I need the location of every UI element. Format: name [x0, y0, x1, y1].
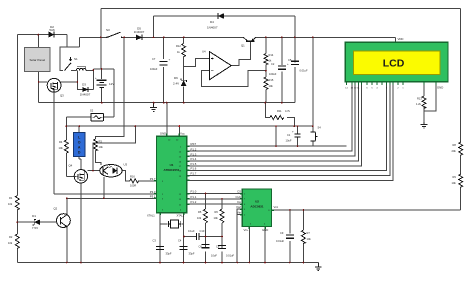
svg-text:12V: 12V — [109, 82, 114, 86]
wire C2 branch — [281, 37, 283, 102]
svg-text:P1.4: P1.4 — [191, 157, 197, 161]
wire D4 bypass rail y16 — [154, 16, 295, 37]
capacitor C1 10uF — [286, 130, 301, 143]
wire battery box right side to fuse — [113, 69, 115, 117]
wire ADC vcc to divider — [272, 209, 461, 211]
svg-text:C2: C2 — [271, 62, 275, 66]
wire 5V rail after Q1 — [256, 36, 396, 38]
wire bottom bus — [17, 262, 318, 264]
wire left column vertical — [16, 35, 18, 263]
svg-text:0.01uF: 0.01uF — [276, 239, 284, 243]
svg-text:S1: S1 — [74, 57, 78, 61]
svg-text:R14: R14 — [269, 53, 274, 57]
wire solar top rail — [17, 34, 67, 36]
wire C9 branch — [289, 210, 291, 263]
zener diode D1 7.5V — [32, 214, 40, 230]
svg-text:+: + — [287, 62, 289, 66]
wire battery enclosure top — [93, 68, 114, 70]
wire battery plus riser — [101, 69, 103, 79]
wire Q2 emitter down — [66, 227, 68, 263]
inductor L1 — [76, 66, 86, 70]
svg-text:Solar Panel: Solar Panel — [30, 58, 46, 62]
mosfet Q3 — [47, 78, 64, 97]
wire S1 to L1 row — [71, 70, 76, 72]
svg-text:1k: 1k — [269, 59, 272, 63]
wire opto output to R16 — [122, 171, 130, 181]
lcd pin numbers — [345, 87, 404, 89]
wire R11 from gnd rail — [265, 103, 294, 127]
capacitor C10 0.1uF — [188, 229, 205, 240]
svg-text:D3: D3 — [82, 83, 86, 87]
resistor R5 — [197, 209, 208, 223]
wire opamp output to Q1 base — [231, 42, 250, 65]
diode D5 1N4007 — [134, 27, 145, 41]
wire bus nest extra — [189, 85, 393, 180]
svg-text:Q1: Q1 — [241, 44, 245, 48]
svg-text:AT89C2051: AT89C2051 — [164, 168, 180, 172]
battery BAT1 12V — [95, 76, 114, 88]
svg-text:2: 2 — [397, 87, 399, 89]
wire D1 to Q2 base — [40, 221, 57, 223]
wire Q3 source to node — [61, 81, 77, 83]
wire ADC vref staircase — [237, 209, 242, 262]
wire P3.0 row — [54, 193, 156, 195]
svg-text:20k: 20k — [452, 149, 457, 153]
svg-text:P1.3: P1.3 — [191, 152, 197, 156]
svg-text:P1.7: P1.7 — [191, 172, 197, 176]
wire C1 stubs — [297, 126, 299, 146]
svg-text:R4: R4 — [59, 140, 63, 144]
switch S1 — [65, 57, 79, 71]
svg-text:R13: R13 — [417, 97, 422, 101]
svg-text:C3: C3 — [153, 239, 157, 243]
resistor R2 — [8, 234, 19, 248]
mcu right pin labels — [191, 142, 197, 204]
wire bus nest P1.7 — [189, 85, 389, 176]
svg-text:Q2: Q2 — [54, 207, 58, 211]
wire vcc bus y126.1 — [66, 125, 313, 127]
wire right end of top rail down to divider — [460, 9, 462, 143]
lcd module — [345, 37, 448, 90]
resistor R8 — [452, 142, 463, 155]
svg-text:7.5V: 7.5V — [32, 226, 38, 230]
resistor R16 — [130, 175, 139, 188]
wire bus nest P1.6 — [189, 85, 386, 170]
svg-text:ADC0831: ADC0831 — [250, 205, 264, 209]
capacitor C9 0.01uF — [276, 231, 294, 243]
svg-text:D1: D1 — [32, 214, 36, 218]
adc pin stubs — [240, 194, 274, 229]
wire divider chain right — [460, 155, 462, 210]
wire opamp minus feedback — [201, 71, 266, 87]
svg-text:+: + — [292, 130, 294, 134]
svg-text:10k: 10k — [307, 237, 312, 241]
wire reset button drop — [312, 37, 314, 146]
wire MCU GND stub — [166, 103, 168, 137]
wire vcc bus drop to opto input — [93, 126, 135, 171]
svg-text:R3: R3 — [99, 140, 103, 144]
svg-text:A: A — [78, 146, 81, 150]
optocoupler U3 — [100, 163, 128, 177]
capacitor C6 10uF — [199, 245, 218, 258]
transistor Q2 — [54, 207, 71, 228]
svg-text:R12: R12 — [176, 44, 181, 48]
wire L1 left tap to switch node — [76, 71, 78, 83]
resistor R1 — [8, 196, 19, 210]
wire XTAL2 drop — [183, 213, 185, 263]
svg-text:11: 11 — [357, 87, 360, 89]
wire C7 branch — [163, 37, 165, 102]
svg-text:1N4007: 1N4007 — [134, 30, 145, 34]
svg-text:Q4: Q4 — [69, 164, 73, 168]
diode D3 1N4007 — [80, 83, 91, 97]
wire R1 R2 junction to D1 — [17, 221, 34, 223]
resistor R13 — [416, 96, 426, 108]
wire L1 to battery top — [86, 69, 93, 71]
svg-text:0.01uF: 0.01uF — [226, 254, 234, 258]
svg-text:14: 14 — [345, 87, 348, 89]
wire gnd rail y102.6 — [39, 102, 295, 104]
svg-text:6: 6 — [366, 87, 368, 89]
wire C3 stubs — [159, 246, 161, 263]
svg-text:U2: U2 — [255, 200, 259, 204]
svg-text:C9: C9 — [280, 231, 284, 235]
wire MCU Vcc stub — [178, 126, 180, 136]
wire C4 stubs — [183, 246, 185, 263]
svg-text:P1.6: P1.6 — [191, 166, 197, 170]
svg-text:XTAL1: XTAL1 — [147, 214, 155, 218]
wire R4 chain — [66, 126, 75, 176]
wire P3.1 row — [67, 197, 157, 199]
wire opto emitter down — [103, 177, 105, 199]
svg-text:R9: R9 — [453, 175, 457, 179]
wire XTAL1 drop — [159, 213, 161, 263]
svg-text:33pF: 33pF — [189, 252, 195, 256]
wire crystal leads — [160, 223, 184, 225]
mcu left pin labels — [150, 177, 156, 199]
svg-text:3: 3 — [386, 87, 388, 89]
diode D2 — [49, 25, 55, 38]
wire panel bottom to gnd rail — [38, 71, 40, 102]
adc pin numbers — [244, 193, 270, 225]
wire VDD drop to LCD — [395, 37, 397, 42]
svg-text:Vcc: Vcc — [180, 132, 185, 136]
svg-text:2.4V: 2.4V — [173, 82, 179, 86]
svg-text:100uF: 100uF — [150, 67, 158, 71]
wire fuse left to vcc bus — [66, 117, 90, 126]
svg-text:U4: U4 — [202, 50, 206, 54]
load block — [73, 133, 85, 157]
wire bus nest P1.4 — [189, 85, 358, 161]
svg-text:S4: S4 — [318, 126, 322, 130]
svg-text:RST: RST — [191, 142, 197, 146]
capacitor C2 100uF — [269, 62, 289, 76]
resistor R14 — [264, 53, 274, 65]
svg-text:R2: R2 — [9, 235, 13, 239]
mcu pin stubs — [154, 134, 189, 216]
svg-text:P1.2: P1.2 — [191, 147, 197, 151]
svg-text:1N4007: 1N4007 — [80, 93, 91, 97]
resistor R9 — [452, 174, 463, 187]
svg-text:O: O — [78, 141, 81, 145]
svg-text:100R: 100R — [130, 184, 136, 188]
ground symbol mid — [150, 103, 157, 112]
wire R14 R15 divider chain — [265, 37, 267, 102]
wire R3 bottom to opto anode — [96, 151, 101, 165]
svg-text:R7: R7 — [307, 231, 311, 235]
svg-text:10k: 10k — [269, 84, 274, 88]
resistor R11 — [270, 109, 291, 120]
svg-text:Q3: Q3 — [60, 94, 64, 98]
wire left end of top rail down to battery — [100, 9, 102, 70]
svg-text:33pF: 33pF — [166, 252, 172, 256]
wire R6 chain — [221, 199, 223, 263]
wire bus nest P1.5 — [189, 85, 361, 166]
op-amp U4 — [202, 50, 231, 80]
mcu U1 AT89C2051 — [147, 132, 187, 218]
svg-text:P1.1: P1.1 — [191, 195, 197, 199]
wire top rail VDD feed — [101, 8, 461, 10]
svg-text:10k: 10k — [99, 145, 104, 149]
svg-text:Vcc: Vcc — [274, 205, 279, 209]
svg-text:U3: U3 — [124, 163, 128, 167]
svg-text:10k: 10k — [214, 216, 219, 220]
wire reset left riser — [275, 126, 277, 146]
svg-text:R6: R6 — [215, 210, 219, 214]
svg-text:R11: R11 — [277, 109, 282, 113]
svg-text:4: 4 — [376, 87, 378, 89]
resistor R3 — [94, 139, 104, 151]
svg-text:10k: 10k — [59, 146, 64, 150]
resistor R4 — [59, 140, 69, 153]
resistor R6 — [214, 209, 225, 223]
svg-text:R16: R16 — [130, 175, 135, 179]
svg-text:D4: D4 — [210, 20, 214, 24]
zener diode D6 2.4V — [173, 76, 186, 86]
resistor R15 — [264, 77, 274, 89]
wire C10 row — [184, 236, 222, 238]
svg-text:10k: 10k — [452, 181, 457, 185]
svg-text:C6: C6 — [199, 245, 203, 249]
svg-text:+: + — [95, 76, 97, 80]
svg-text:+: + — [169, 58, 171, 62]
svg-text:0.01uF: 0.01uF — [300, 69, 308, 73]
wire opto input row — [88, 170, 100, 172]
wire LOAD stubs — [79, 126, 81, 170]
svg-text:R5: R5 — [198, 210, 202, 214]
wire Q3 gate down — [53, 92, 55, 194]
wire D3 to battery plus side — [89, 71, 94, 90]
svg-text:C1: C1 — [287, 133, 291, 137]
svg-text:R8: R8 — [453, 143, 457, 147]
mosfet Q4 — [69, 164, 88, 184]
wire D2 to S1 staircase — [60, 35, 67, 71]
wire battery minus to gnd rail — [101, 88, 103, 103]
svg-text:1: 1 — [402, 87, 404, 89]
capacitor C7 100uF — [150, 57, 171, 71]
wire P1.0 row to ADC CS — [189, 193, 242, 195]
wire panel minus to Q3 drain — [39, 81, 48, 83]
wire RST row — [189, 145, 346, 147]
svg-text:S2: S2 — [90, 109, 94, 113]
diode D4 1N4007 — [207, 13, 224, 29]
svg-text:C8: C8 — [216, 245, 220, 249]
wire node down to D3 — [77, 82, 82, 90]
capacitor C8 0.01uF — [216, 245, 234, 258]
wire LCD R13 branch — [424, 85, 436, 122]
svg-text:GND: GND — [160, 132, 166, 136]
wire R12 D6 branch — [183, 37, 185, 102]
svg-text:1.2k: 1.2k — [416, 102, 422, 106]
svg-text:4.7k: 4.7k — [285, 109, 291, 113]
svg-text:S3: S3 — [106, 28, 110, 32]
resistor R12 — [176, 44, 186, 57]
mcu pin numbers — [162, 140, 182, 212]
push button S4 — [310, 126, 321, 142]
ground symbol lcd — [421, 122, 428, 128]
solar panel — [25, 48, 51, 72]
wire R7 branch — [302, 210, 304, 263]
svg-text:10k: 10k — [8, 202, 13, 206]
svg-text:GND: GND — [437, 86, 443, 90]
wire Q4 source down — [80, 183, 82, 263]
resistor R7 — [301, 230, 311, 244]
wire R5 chain — [205, 194, 207, 263]
wire main 12V rail y37.4 — [80, 36, 244, 38]
svg-text:U1: U1 — [170, 163, 174, 167]
svg-text:C10: C10 — [200, 229, 205, 233]
capacitor C3 33pF — [153, 239, 172, 256]
svg-text:VDD: VDD — [398, 37, 404, 41]
svg-text:P1.5: P1.5 — [191, 162, 197, 166]
capacitor C4 33pF — [178, 239, 195, 256]
svg-text:P1.2: P1.2 — [191, 200, 197, 204]
wire battery switch rail riser — [67, 37, 80, 47]
wire P1.2 row to ADC DO — [189, 203, 242, 205]
wire switch rail drop to opto feed — [96, 37, 125, 139]
wire solar panel top stub — [37, 35, 39, 48]
wire R16 to MCU P3.7 — [139, 180, 157, 182]
svg-text:1k: 1k — [177, 50, 180, 54]
svg-text:LCD: LCD — [383, 57, 405, 69]
wire Q2 collector up — [66, 198, 68, 214]
wire P1.1 row to ADC CLK — [189, 198, 242, 200]
svg-text:C5: C5 — [288, 58, 292, 62]
wire ADC gnd down — [264, 227, 266, 263]
svg-text:C7: C7 — [152, 57, 156, 61]
svg-text:D6: D6 — [174, 76, 178, 80]
wire fuse right riser — [104, 116, 115, 118]
wire C5 branch — [294, 37, 296, 102]
svg-text:10k: 10k — [8, 241, 13, 245]
lcd pin stubs — [347, 82, 437, 85]
wire bus nest P1.3 — [189, 85, 355, 156]
svg-text:1N4007: 1N4007 — [207, 26, 218, 30]
svg-text:D: D — [78, 151, 81, 155]
adc pin labels — [236, 190, 242, 215]
svg-text:10uF: 10uF — [211, 254, 217, 258]
switch S3 — [106, 28, 122, 38]
transistor Q1 — [241, 37, 256, 47]
ground symbol bottom — [315, 263, 322, 271]
svg-text:R15: R15 — [269, 78, 274, 82]
svg-text:5A6: 5A6 — [49, 28, 55, 32]
wire bus nest P1.2 — [189, 85, 351, 151]
adc U2 ADC0831 — [242, 189, 271, 227]
svg-text:10k: 10k — [197, 216, 202, 220]
svg-text:0.1uF: 0.1uF — [188, 229, 195, 233]
wire R12 tap to opamp plus — [184, 59, 209, 67]
svg-text:5: 5 — [371, 87, 373, 89]
svg-text:R1: R1 — [9, 196, 13, 200]
crystal X1 — [168, 220, 180, 228]
capacitor C5 0.01uF — [288, 58, 308, 73]
svg-text:100uF: 100uF — [269, 72, 277, 76]
svg-text:Vin-: Vin- — [244, 228, 249, 232]
fuse S2 — [90, 109, 104, 121]
svg-text:10uF: 10uF — [286, 139, 292, 143]
svg-text:C4: C4 — [178, 239, 182, 243]
wire ADC vin- down — [248, 227, 250, 263]
svg-text:P1.0: P1.0 — [191, 190, 197, 194]
